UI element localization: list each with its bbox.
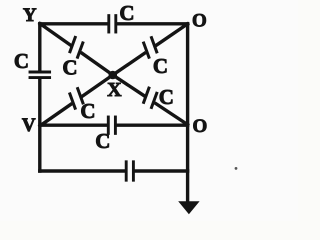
capacitor C (lower bus, unlabeled) xyxy=(126,162,133,180)
stray mark xyxy=(235,167,238,170)
svg-text:C: C xyxy=(62,55,77,79)
capacitor C (top O-X diagonal) xyxy=(144,38,157,58)
label node X xyxy=(107,79,122,101)
capacitor C (Y-X diagonal) xyxy=(70,37,83,57)
wire right edge (O down to ground) xyxy=(186,24,189,202)
svg-text:O: O xyxy=(192,11,207,32)
label C (left edge) xyxy=(14,49,29,73)
wire bottom edge (V to O) xyxy=(40,123,188,126)
label C (Y-X diagonal) xyxy=(62,55,77,79)
svg-text:C: C xyxy=(119,1,134,25)
svg-text:X: X xyxy=(107,79,122,101)
wire diagonal V to X xyxy=(40,75,113,126)
label node O (bottom right) xyxy=(193,116,208,137)
wire diagonal bottom O to X xyxy=(113,75,188,125)
label node V xyxy=(22,115,36,136)
svg-text:C: C xyxy=(14,49,29,73)
label node O (top right) xyxy=(192,11,207,32)
label node Y xyxy=(23,5,37,26)
svg-text:O: O xyxy=(193,116,208,137)
wire left edge (Y down through V to bottom bus) xyxy=(38,24,41,171)
wire diagonal Y to X xyxy=(40,24,113,75)
svg-text:C: C xyxy=(159,85,174,109)
capacitor C (left edge) xyxy=(30,72,50,78)
svg-text:C: C xyxy=(153,54,168,78)
svg-text:V: V xyxy=(22,115,36,136)
svg-text:C: C xyxy=(80,99,95,123)
node X junction dot xyxy=(109,71,118,80)
wire diagonal top O to X xyxy=(113,24,188,75)
label C (top O-X diagonal) xyxy=(153,54,168,78)
label C (bottom O-X diagonal) xyxy=(159,85,174,109)
svg-text:C: C xyxy=(95,129,110,153)
label C (V-X diagonal) xyxy=(80,99,95,123)
capacitor C (bottom O-X diagonal) xyxy=(144,88,157,107)
wire lower bus xyxy=(40,169,188,172)
label C (bottom edge) xyxy=(95,129,110,153)
capacitor C (bottom edge V-O) xyxy=(108,117,115,133)
svg-text:Y: Y xyxy=(23,5,37,26)
label C (top edge) xyxy=(119,1,134,25)
wire top edge (Y to O) xyxy=(40,22,188,25)
capacitor C (V-X diagonal) xyxy=(70,89,83,109)
ground symbol xyxy=(178,201,199,214)
capacitor C (top edge) xyxy=(109,16,116,32)
